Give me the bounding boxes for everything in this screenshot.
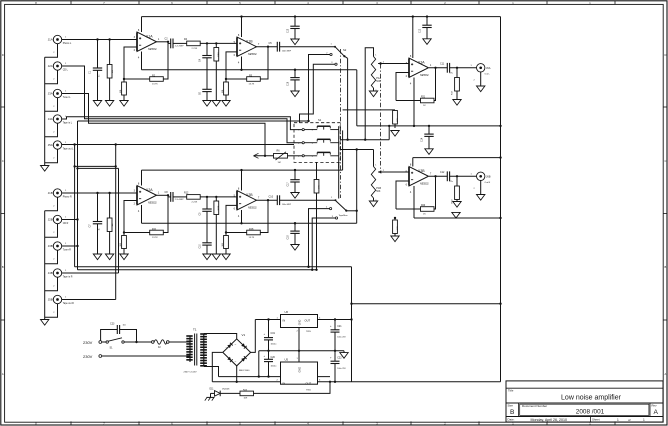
resistor R1: [109, 40, 111, 65]
svg-text:OUT: OUT: [306, 382, 312, 386]
wire S1 to F1: [124, 341, 154, 343]
wire bus vertical left 2: [77, 121, 79, 270]
wire -V rail lower: [219, 376, 331, 378]
wire input to op-amp: [62, 192, 137, 194]
fuse F2: [152, 341, 155, 344]
U2B V- pin wire: [241, 210, 243, 223]
svg-text:J1A: J1A: [48, 38, 53, 42]
svg-text:Out L: Out L: [485, 73, 491, 76]
wire V- rail U3A: [357, 125, 501, 127]
wire bus vertical right of connectors: [118, 168, 120, 273]
resistor R14: [343, 109, 395, 111]
resistor R22: [394, 218, 396, 220]
svg-text:B: B: [2, 265, 4, 269]
junction supply runs: [307, 266, 309, 268]
svg-text:C: C: [2, 159, 4, 163]
svg-text:230V / 2x15V: 230V / 2x15V: [184, 371, 198, 373]
wire C5 to selector: [280, 46, 335, 48]
wire S2B contact 2: [309, 209, 330, 267]
wire S2A contact 3: [300, 64, 335, 123]
svg-text:P1A: P1A: [376, 77, 381, 80]
svg-text:50K: 50K: [376, 81, 381, 83]
wire R4 to U1B: [200, 42, 237, 44]
junction J2B: [76, 218, 78, 220]
wire supply run +15V: [75, 266, 352, 268]
ground (R3): [123, 96, 125, 101]
ground (C15): [294, 38, 296, 40]
svg-text:1000u: 1000u: [271, 344, 278, 346]
svg-text:Tape out R: Tape out R: [63, 302, 74, 305]
wire supply loop left: [351, 267, 353, 382]
svg-text:13.7K: 13.7K: [249, 237, 255, 239]
junction dots input node: [96, 38, 98, 40]
connector J3A (Tuner L): [53, 89, 61, 97]
svg-text:−: −: [226, 346, 228, 350]
ground (R15): [215, 249, 217, 254]
svg-text:B: B: [510, 409, 515, 416]
wire supply loop top: [352, 303, 501, 305]
connector J3B (Tuner R): [53, 242, 61, 250]
title block: [506, 381, 663, 422]
op-amp U2B: [237, 191, 257, 211]
wire to C8: [168, 196, 171, 198]
resistor R9: [109, 193, 111, 218]
J5A shield pin wire: [45, 149, 58, 163]
svg-text:1M: 1M: [112, 223, 114, 226]
svg-text:230V: 230V: [83, 340, 93, 345]
ground (input connectors): [44, 165, 46, 167]
wire to C2: [168, 42, 171, 44]
wire J3A to selector row 3: [62, 94, 265, 156]
svg-text:IN: IN: [283, 319, 286, 323]
ground (C13): [426, 38, 428, 40]
resistor R19: [456, 176, 458, 186]
svg-text:Title: Title: [508, 389, 514, 393]
svg-text:C12: C12: [440, 171, 445, 174]
svg-text:2008 /001: 2008 /001: [576, 409, 605, 416]
svg-text:R18: R18: [249, 228, 254, 231]
resistor R15: [215, 197, 217, 201]
wire J5A tape-out run: [62, 144, 294, 146]
resistor R7: [215, 43, 217, 47]
regulator U5 (7915): [281, 362, 318, 384]
svg-text:S1: S1: [318, 118, 322, 122]
svg-text:U1B: U1B: [246, 39, 253, 43]
wire J2B to bus: [62, 219, 78, 221]
capacitor C23 (snubber): [101, 330, 118, 341]
svg-text:Phono L: Phono L: [63, 43, 72, 45]
svg-text:GND: GND: [299, 367, 302, 373]
svg-text:J3B: J3B: [48, 244, 53, 248]
wire bridge bottom drop: [236, 366, 238, 382]
U1B output wire: [257, 46, 278, 48]
svg-text:Document Number: Document Number: [522, 404, 547, 408]
J4B shield pin wire: [45, 277, 58, 291]
svg-text:50K: 50K: [376, 191, 381, 193]
wire C11 to J6A: [450, 67, 477, 69]
junction J3A/R6: [264, 155, 266, 157]
chassis ground (D11): [210, 393, 212, 397]
svg-text:C17: C17: [288, 182, 290, 187]
wire regulator GND column: [298, 328, 300, 363]
svg-text:U2A: U2A: [146, 188, 153, 192]
junction output node: [434, 67, 436, 69]
ground (C16): [294, 90, 296, 92]
U3A V+ pin wire: [412, 17, 414, 58]
junction J3B: [76, 245, 78, 247]
J3A shield pin wire: [45, 98, 58, 112]
wire selector common to S2B: [338, 162, 340, 198]
U3B + input wire: [382, 171, 410, 173]
svg-text:R12: R12: [184, 192, 189, 195]
svg-text:R11: R11: [152, 228, 157, 231]
capacitor C17 (V+ decoupling): [294, 170, 296, 180]
wire R12 to U2B: [200, 196, 237, 198]
svg-text:~: ~: [235, 360, 237, 364]
diode D11: [211, 392, 215, 394]
junction tape bus link 2: [76, 167, 78, 169]
border zone ticks: [70, 1, 72, 5]
U1A inverting input wire: [124, 47, 137, 79]
svg-text:230V: 230V: [83, 354, 93, 359]
capacitor C20: [268, 351, 270, 360]
U1A V- pin wire: [141, 52, 143, 70]
svg-text:A: A: [2, 372, 4, 376]
svg-text:of: of: [628, 418, 631, 422]
J4A shield pin wire: [45, 123, 58, 137]
junction dot feedback tap: [167, 41, 169, 43]
op-amp U2A: [137, 186, 157, 206]
junction monitor return: [307, 120, 309, 122]
ground (R1): [109, 96, 111, 101]
wire bridge right to +rail: [251, 320, 256, 353]
svg-text:Tape in R: Tape in R: [63, 277, 73, 279]
U3B output wire: [429, 175, 447, 177]
svg-text:U2B: U2B: [246, 193, 253, 197]
svg-text:A: A: [654, 409, 659, 416]
svg-text:Tuner L: Tuner L: [63, 96, 72, 99]
connector J6A (Out L): [477, 64, 485, 72]
svg-text:2.21K: 2.21K: [192, 48, 198, 50]
regulator U6 (7815): [281, 315, 318, 328]
resistor R18 (feedback): [226, 232, 247, 234]
J1B shield pin wire: [45, 197, 58, 211]
capacitor C13 (U3 V+ decoupling): [426, 17, 428, 26]
capacitor C9: [206, 197, 208, 209]
wire secondary top to bridge: [204, 334, 237, 339]
svg-text:47K: 47K: [397, 118, 399, 122]
resistor R12: [187, 195, 201, 200]
junction dot feedback tap 2: [267, 199, 269, 201]
wire supply loop right: [500, 304, 502, 382]
connector J4A (Tape in L): [53, 115, 61, 123]
svg-text:C18: C18: [288, 235, 290, 240]
svg-text:P1B: P1B: [376, 187, 381, 190]
svg-text:J5A: J5A: [48, 143, 53, 147]
J2B shield pin wire: [45, 224, 58, 238]
wire ground rail PSU: [259, 350, 344, 352]
ground (C18): [294, 244, 296, 246]
svg-text:C: C: [664, 159, 666, 163]
capacitor C18 (V- decoupling): [294, 223, 296, 231]
wire tape bus link 2: [78, 167, 119, 169]
capacitor C4: [206, 43, 208, 55]
svg-text:1M: 1M: [278, 162, 281, 164]
svg-text:47K: 47K: [397, 226, 399, 230]
ground (R22): [394, 235, 396, 237]
wire mains live: [102, 341, 106, 343]
selector S1 position 3 contact: [302, 155, 304, 157]
ground (PSU): [343, 351, 345, 353]
capacitor C2: [170, 39, 172, 49]
resistor R5 (feedback): [226, 78, 247, 80]
junction dot feedback tap: [167, 194, 169, 196]
wire P1B top stub: [373, 150, 375, 167]
ground (R16): [225, 249, 227, 255]
svg-text:J2B: J2B: [48, 218, 53, 222]
svg-text:1M: 1M: [112, 70, 114, 73]
J2A shield pin wire: [45, 70, 58, 84]
svg-text:NE5532: NE5532: [248, 207, 257, 210]
junction output node: [434, 175, 436, 177]
wire secondary bottom: [204, 367, 219, 377]
svg-text:10R: 10R: [244, 398, 248, 400]
junction dot feedback tap 2: [267, 46, 269, 48]
op-amp U1B: [237, 37, 257, 57]
svg-text:C13: C13: [420, 28, 422, 33]
wire S2A selected signal down: [347, 58, 349, 139]
capacitor C8: [170, 192, 172, 202]
wire J2A to selector row 2: [62, 66, 303, 143]
connector J4B (Tape in R): [53, 269, 61, 277]
svg-text:Monday, April 26, 2010: Monday, April 26, 2010: [531, 418, 568, 422]
U1B inverting input wire: [226, 52, 237, 79]
connector J1A (Phono L): [53, 35, 61, 43]
switch S2B: [336, 201, 346, 210]
svg-text:Size: Size: [508, 404, 514, 408]
wire V+ rail U3B: [413, 157, 501, 159]
resistor R21 (feedback): [421, 98, 435, 103]
ground (C7): [97, 249, 99, 254]
wire +15V feed vertical: [500, 17, 502, 304]
svg-text:U5: U5: [285, 357, 289, 361]
connector J6B (Out R): [477, 172, 485, 180]
svg-text:C11: C11: [440, 63, 445, 66]
svg-text:IN: IN: [283, 382, 286, 386]
U3A output wire: [429, 67, 447, 69]
resistor R6: [254, 155, 274, 157]
U2A inverting input wire: [124, 201, 137, 233]
svg-text:47u: 47u: [450, 181, 453, 183]
wire P1B feed row: [340, 149, 373, 151]
J3B shield pin wire: [45, 250, 58, 264]
svg-text:NE5532: NE5532: [248, 53, 257, 56]
svg-text:GND: GND: [299, 320, 302, 326]
wire V+ rail channel A: [142, 16, 501, 18]
wire V- rail channel B: [142, 222, 357, 224]
svg-text:U3B: U3B: [418, 169, 425, 173]
svg-text:U1A: U1A: [146, 34, 153, 38]
svg-text:47u: 47u: [450, 73, 453, 75]
potentiometer P1B: [371, 167, 375, 199]
svg-text:Sheet: Sheet: [592, 418, 600, 422]
svg-text:R20: R20: [421, 205, 426, 207]
svg-text:100n MKP: 100n MKP: [282, 50, 292, 52]
svg-text:+: +: [246, 346, 248, 350]
resistor R16: [225, 233, 227, 236]
svg-text:301K: 301K: [218, 52, 220, 57]
svg-text:Phono R: Phono R: [63, 197, 72, 199]
junction J5A branches: [115, 143, 117, 145]
svg-text:Rev: Rev: [652, 404, 658, 408]
svg-text:1000u: 1000u: [271, 365, 278, 367]
svg-text:7815: 7815: [306, 331, 312, 333]
op-amp U3A: [409, 58, 429, 78]
U1A output wire: [157, 41, 169, 43]
selector S1 position 2 contact: [302, 142, 304, 144]
junction S2B contact 2: [307, 266, 309, 268]
ground (P1B): [373, 198, 375, 201]
svg-text:13.7K: 13.7K: [152, 237, 158, 239]
svg-text:13.7K: 13.7K: [249, 84, 255, 86]
wire U5 IN -15V: [212, 381, 280, 383]
resistor R2 (feedback): [124, 78, 150, 80]
ground (C6): [206, 96, 208, 101]
U2A V+ pin wire: [141, 170, 143, 185]
capacitor C6: [202, 88, 211, 90]
wire S2A contact 2: [309, 55, 330, 122]
wire V- rail channel A: [142, 69, 357, 71]
svg-text:B: B: [665, 265, 667, 269]
svg-text:C15: C15: [288, 28, 290, 33]
svg-text:J6B: J6B: [486, 175, 491, 179]
U3B V+ pin wire: [412, 158, 414, 167]
svg-text:D: D: [2, 53, 4, 57]
switch S1: [106, 341, 108, 343]
ground (R17): [456, 99, 458, 101]
svg-text:NE5532: NE5532: [420, 183, 429, 186]
ground (R9): [109, 249, 111, 254]
capacitor C21: [334, 320, 336, 330]
U3B V- pin wire: [413, 186, 415, 218]
svg-text:U3A: U3A: [418, 60, 425, 64]
resistor R11 (feedback): [124, 232, 150, 234]
wire +V to U6 IN: [255, 319, 280, 321]
wire supply run -15V: [78, 269, 317, 271]
ground (R14): [394, 130, 396, 132]
wire S2B riser: [356, 150, 358, 224]
svg-text:~: ~: [235, 343, 237, 347]
switch S2A: [336, 47, 345, 56]
connector J2A (CD L): [53, 62, 61, 70]
U3B inverting input wire: [396, 181, 409, 209]
connector J2B (CD R): [53, 215, 61, 223]
svg-text:C10: C10: [269, 195, 274, 198]
junction dots interstage: [206, 42, 208, 44]
gang link P1A-P1B (dashed): [380, 64, 382, 172]
U3A + input wire: [382, 63, 410, 65]
ground (J6B): [480, 180, 482, 194]
resistor R4: [187, 41, 201, 46]
svg-text:C19: C19: [271, 332, 276, 335]
wire V- rail channel A drop: [356, 70, 358, 126]
svg-text:100n MKP: 100n MKP: [282, 204, 292, 206]
svg-text:C14: C14: [422, 137, 424, 142]
svg-text:100u 25V: 100u 25V: [337, 336, 346, 338]
svg-text:J3A: J3A: [48, 92, 53, 96]
svg-text:2.2u MKP: 2.2u MKP: [175, 199, 184, 201]
wire J5B to bus: [62, 299, 116, 301]
svg-text:C10: C10: [200, 244, 202, 249]
wire bus vertical left 1: [74, 145, 76, 267]
svg-text:47K: 47K: [318, 185, 320, 189]
svg-text:J5B: J5B: [48, 298, 53, 302]
wire tape bus link 1: [75, 165, 116, 167]
svg-text:Tape out L: Tape out L: [63, 148, 74, 151]
capacitor C22: [334, 351, 336, 361]
svg-text:Date:: Date:: [508, 418, 515, 422]
wire bridge left to -rail: [212, 352, 223, 381]
capacitor C12: [446, 171, 448, 181]
wire F2 to T1: [169, 341, 188, 343]
capacitor C16 (V- decoupling): [294, 70, 296, 78]
wire U6 OUT +15V: [318, 319, 352, 321]
op-amp U1A: [137, 32, 157, 52]
svg-text:J4B: J4B: [48, 271, 53, 275]
selector S1 position 1 contact: [302, 129, 304, 131]
resistor R24: [220, 392, 240, 394]
svg-text:U6: U6: [285, 310, 289, 314]
svg-text:D: D: [664, 53, 666, 57]
wire J3B to bus: [62, 245, 78, 247]
svg-text:C21: C21: [337, 325, 342, 328]
svg-text:C16: C16: [288, 81, 290, 86]
resistor R17: [456, 68, 458, 78]
svg-text:Tape in L: Tape in L: [63, 123, 73, 125]
wire selector common 2: [342, 130, 344, 170]
resistor R8: [225, 79, 227, 82]
svg-text:A: A: [665, 372, 667, 376]
junction dots input node: [96, 192, 98, 194]
svg-text:OUT: OUT: [305, 319, 311, 323]
svg-text:J1B: J1B: [48, 191, 53, 195]
capacitor C10: [276, 195, 278, 205]
svg-text:S2: S2: [343, 48, 347, 52]
ground (P1A): [373, 88, 375, 91]
capacitor C19: [268, 320, 270, 338]
svg-text:2.21K: 2.21K: [192, 202, 198, 204]
ground (C14): [428, 148, 430, 150]
ground (C10): [206, 249, 208, 254]
svg-text:B80C1500: B80C1500: [239, 370, 250, 372]
wire tape vertical: [115, 145, 117, 300]
U2A output wire: [157, 194, 169, 196]
wire monitor return run: [78, 120, 309, 122]
ground (V- rail U3B): [455, 211, 457, 213]
U2B V+ pin wire: [241, 170, 243, 190]
wire input to op-amp: [62, 39, 137, 41]
resistor R10: [122, 236, 127, 249]
transformer T1: [189, 336, 191, 362]
bridge rectifier V1: [223, 339, 251, 366]
ground (R10): [123, 249, 125, 254]
resistor R3: [122, 82, 127, 95]
svg-text:C22: C22: [337, 357, 342, 360]
wire C10 to selector: [280, 199, 335, 201]
ground (R8): [225, 95, 227, 101]
svg-text:V1: V1: [242, 333, 246, 337]
svg-text:13.7K: 13.7K: [152, 84, 158, 86]
